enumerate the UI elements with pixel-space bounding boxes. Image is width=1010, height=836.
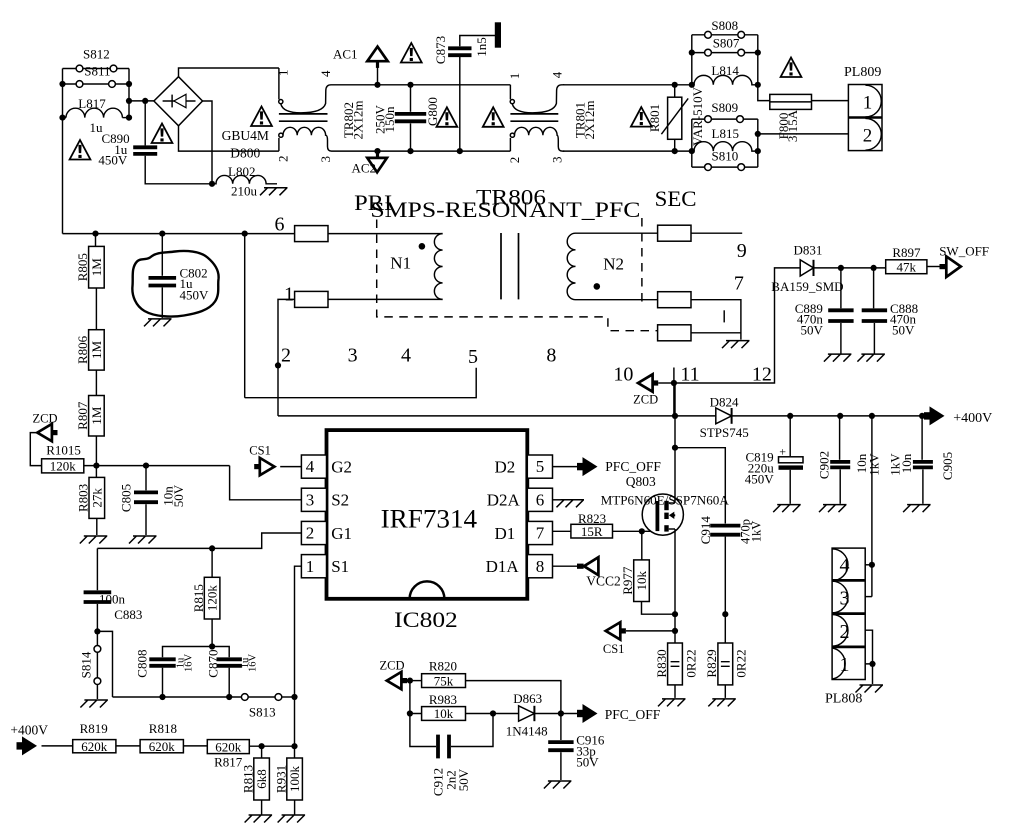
node CS1 (pin 4): [280, 466, 301, 468]
aux winding link box: [658, 332, 662, 334]
IC802 pin 7 (D1): [527, 521, 552, 544]
wire 7 (N2 bottom): [576, 299, 658, 301]
svg-text:2: 2: [306, 524, 315, 543]
svg-text:L802: L802: [228, 164, 255, 179]
wire pin2 G1 net: [97, 533, 301, 548]
svg-text:15R: 15R: [581, 524, 603, 539]
IC802 pin 5 (D2): [527, 455, 552, 478]
svg-text:AC1: AC1: [333, 47, 358, 62]
svg-text:N2: N2: [603, 255, 624, 274]
svg-text:3.15A: 3.15A: [785, 109, 800, 142]
svg-text:4: 4: [306, 457, 315, 476]
svg-text:MTP6N60E/SSP7N60A: MTP6N60E/SSP7N60A: [601, 493, 730, 508]
IC U IC802 IRF7314 outline: [327, 430, 528, 599]
svg-text:3: 3: [306, 490, 315, 509]
wire pin7 to R823: [553, 530, 571, 532]
TR806 dashed boundary PRI: [377, 220, 661, 331]
resistor R830 0R22: [668, 643, 683, 685]
ground (C802): [144, 319, 172, 327]
resistor R815 120k: [211, 548, 213, 577]
capacitor C800 250V 150n: [410, 85, 412, 112]
svg-text:BA159_SMD: BA159_SMD: [771, 279, 843, 294]
fuse box on wire 1: [295, 291, 328, 307]
svg-text:10k: 10k: [434, 706, 454, 721]
svg-text:D831: D831: [794, 243, 823, 258]
ground (L802): [260, 188, 288, 196]
svg-text:C883: C883: [114, 607, 142, 622]
svg-text:VCC2: VCC2: [586, 574, 621, 589]
svg-text:D824: D824: [710, 394, 739, 409]
wire L815 block right rail: [757, 119, 759, 167]
capacitor C805 10n 50V: [145, 466, 147, 491]
svg-text:150n: 150n: [382, 106, 397, 133]
svg-text:8: 8: [536, 557, 545, 576]
svg-text:R801: R801: [647, 104, 662, 132]
svg-text:CS1: CS1: [603, 642, 625, 656]
svg-text:2: 2: [863, 125, 873, 146]
wire R983 to D863: [466, 713, 519, 715]
svg-text:6: 6: [275, 214, 285, 236]
resistor R977 10k: [641, 531, 643, 560]
svg-text:+400V: +400V: [10, 723, 48, 738]
svg-text:450V: 450V: [98, 153, 128, 168]
wire rail to PL808 pins 4/3: [871, 416, 873, 597]
ground (C905): [903, 505, 931, 512]
capacitor C889 470n 50V: [840, 268, 842, 308]
wire S1 net vertical: [294, 697, 296, 746]
ground (R803): [80, 536, 108, 544]
wire mains bus (node 6): [63, 233, 295, 235]
svg-text:+: +: [779, 445, 786, 459]
svg-text:D863: D863: [513, 691, 542, 706]
svg-text:50V: 50V: [801, 322, 824, 337]
wire pin2/pin5 bottom link: [245, 368, 477, 398]
connector PL808: [832, 548, 865, 679]
svg-text:2X12m: 2X12m: [350, 101, 365, 140]
transformer TR801 2X12m: [509, 85, 511, 100]
TR806 dashed boundary SEC: [641, 218, 643, 305]
svg-text:50V: 50V: [171, 484, 186, 507]
ground (R829): [708, 699, 736, 707]
wire TR801 pin4 to L814 block: [563, 84, 694, 86]
warning triangle (bridge left): [152, 124, 173, 144]
svg-text:1M: 1M: [89, 406, 104, 425]
svg-text:C808: C808: [134, 650, 149, 678]
svg-text:L814: L814: [711, 63, 739, 78]
connector PL809: [848, 85, 882, 151]
svg-text:4: 4: [318, 70, 333, 77]
resistor R1015 120k: [42, 459, 84, 473]
svg-text:R806: R806: [75, 335, 90, 364]
wire pin 12 to D831: [674, 268, 800, 383]
ground (S814): [80, 700, 108, 708]
bridge rectifier D800 GBU4M: [154, 77, 203, 126]
svg-text:0R22: 0R22: [683, 649, 698, 677]
svg-text:R983: R983: [429, 692, 457, 707]
svg-text:ZCD: ZCD: [380, 658, 405, 672]
svg-text:D1: D1: [495, 524, 516, 543]
ground (R931): [278, 815, 306, 823]
svg-text:GBU4M: GBU4M: [222, 128, 269, 143]
svg-text:PRI: PRI: [354, 190, 392, 215]
svg-text:N1: N1: [390, 254, 411, 273]
capacitor C912 2n2 50V: [410, 714, 436, 747]
svg-text:PL809: PL809: [844, 65, 881, 80]
svg-text:2: 2: [281, 345, 291, 367]
node ZCD (bottom): [387, 672, 402, 689]
node CS1 (Q803 source): [626, 630, 675, 632]
diode D831 BA159_SMD: [800, 260, 813, 276]
winding N1: [434, 234, 442, 300]
wire ZCD node to drain: [673, 383, 675, 416]
svg-text:27k: 27k: [89, 488, 104, 508]
svg-text:3: 3: [318, 156, 333, 163]
svg-text:16V: 16V: [183, 654, 194, 673]
wire L815 block left rail: [691, 119, 693, 167]
wire PL808 pin2/pin1 link: [865, 630, 872, 664]
wire D863 to PFC_OFF: [534, 713, 578, 715]
pin 11 stub: [673, 368, 675, 384]
wire bridge bottom to TR802 pin2: [179, 126, 279, 151]
svg-text:1: 1: [507, 73, 522, 80]
warning triangle (AC1 right): [401, 43, 422, 63]
svg-text:+400V: +400V: [953, 411, 992, 426]
svg-text:6: 6: [536, 490, 545, 509]
svg-text:L815: L815: [712, 126, 739, 141]
svg-text:R807: R807: [75, 401, 90, 430]
wire R820 to D863 node: [466, 681, 561, 714]
node ZCD (pin 10): [638, 374, 653, 391]
wire bridge top to TR802 pin1: [179, 68, 279, 77]
svg-text:R829: R829: [704, 649, 719, 677]
winding N2: [567, 233, 575, 300]
svg-text:C870: C870: [205, 650, 220, 678]
capacitor C870 1u 16V: [217, 659, 242, 666]
resistor R819 620k: [73, 740, 116, 753]
svg-text:PFC_OFF: PFC_OFF: [605, 707, 661, 722]
capacitor C819 220u 450V (electrolytic): [789, 416, 791, 456]
ground (C889): [824, 354, 852, 362]
wire S-block to bridge: [129, 100, 154, 102]
switch S811: [63, 83, 130, 85]
diode D824 STPS745: [716, 408, 732, 424]
inductor L814: [694, 75, 758, 84]
svg-text:9: 9: [737, 240, 747, 262]
svg-text:75k: 75k: [434, 673, 454, 688]
svg-text:Q803: Q803: [626, 474, 656, 489]
ground (R830): [658, 699, 686, 707]
ground (C805): [129, 536, 157, 544]
svg-text:S812: S812: [83, 47, 110, 62]
warning triangle (input): [70, 140, 91, 160]
svg-text:4: 4: [840, 555, 850, 577]
svg-text:S2: S2: [331, 491, 349, 510]
svg-text:2: 2: [840, 621, 850, 643]
svg-text:3: 3: [348, 345, 358, 367]
svg-text:10n: 10n: [899, 453, 914, 473]
switch S812: [63, 68, 130, 70]
svg-text:11: 11: [680, 364, 699, 386]
svg-text:D2A: D2A: [487, 491, 521, 510]
svg-text:1: 1: [840, 654, 850, 676]
wire C883 node to bottom row: [97, 631, 112, 697]
wire L814 block right rail: [757, 35, 759, 85]
node R1015 row: [84, 465, 230, 467]
capacitor C808 1u 16V: [149, 659, 175, 666]
transformer TR802 2X12m: [278, 68, 280, 99]
svg-text:S808: S808: [711, 18, 738, 33]
ground (C916): [544, 781, 572, 789]
svg-text:R931: R931: [273, 765, 288, 793]
wire R819-R818: [116, 745, 140, 747]
IC802 pin 6 (D2A): [527, 488, 552, 511]
wire source to R830: [674, 614, 676, 643]
wire to fuse F800: [758, 85, 770, 101]
node PFC_OFF (bottom): [583, 704, 598, 723]
svg-text:100k: 100k: [287, 766, 302, 793]
ground (C819): [773, 505, 801, 512]
svg-text:S814: S814: [79, 651, 94, 678]
wire R818-R817: [183, 745, 207, 747]
svg-text:R830: R830: [654, 649, 669, 677]
wire 9 (N2 top): [576, 232, 658, 234]
capacitor C883 100n: [96, 548, 98, 590]
TR806 core lines: [501, 233, 519, 299]
svg-text:G800: G800: [425, 97, 440, 126]
resistor R817 620k: [207, 740, 249, 754]
resistor R806 1M: [95, 288, 97, 330]
resistor R983 10k: [422, 707, 466, 721]
svg-text:1: 1: [306, 557, 315, 576]
resistor R823 15R: [571, 524, 613, 538]
wire D831 to R897: [814, 267, 886, 269]
svg-text:1M: 1M: [89, 340, 104, 359]
IC802 pin 2 (G1): [301, 521, 326, 544]
svg-text:1n5: 1n5: [474, 37, 489, 57]
ground (C902): [819, 505, 847, 512]
svg-text:G1: G1: [331, 524, 352, 543]
capacitor C890: [144, 101, 146, 145]
svg-text:6k8: 6k8: [254, 769, 269, 789]
capacitor C905 1kV 10n: [921, 416, 923, 460]
svg-text:R823: R823: [578, 511, 606, 526]
svg-text:IRF7314: IRF7314: [381, 505, 478, 534]
svg-text:12: 12: [752, 364, 772, 386]
svg-text:G2: G2: [331, 457, 352, 476]
svg-text:10: 10: [613, 364, 633, 386]
svg-text:4: 4: [549, 71, 564, 78]
IC802 pin 8 (D1A): [527, 555, 552, 578]
svg-text:D2: D2: [495, 457, 516, 476]
svg-text:7: 7: [734, 273, 744, 295]
node ZCD (left): [30, 433, 41, 466]
switch S810: [692, 166, 758, 168]
svg-text:S813: S813: [249, 705, 276, 720]
wire L814 block left rail: [691, 35, 693, 85]
ground (PL808): [856, 685, 884, 693]
IC802 pin 4 (G2): [301, 455, 326, 478]
svg-text:S810: S810: [712, 149, 739, 164]
svg-text:50V: 50V: [576, 755, 599, 770]
switch S813: [241, 694, 248, 701]
svg-text:C805: C805: [119, 484, 134, 512]
ground (C888): [857, 354, 885, 362]
wire 1 (N1 bottom): [328, 298, 443, 300]
svg-text:R819: R819: [80, 721, 108, 736]
svg-text:120k: 120k: [50, 459, 77, 474]
svg-text:SW_OFF: SW_OFF: [939, 243, 989, 258]
svg-text:1N4148: 1N4148: [506, 723, 548, 738]
IC802 pin 1 (S1): [301, 555, 326, 578]
fuse box on wire 7: [658, 292, 691, 308]
switch S808: [692, 34, 758, 36]
svg-text:ZCD: ZCD: [33, 412, 58, 426]
svg-text:R803: R803: [76, 484, 91, 512]
resistor R897 47k: [886, 260, 927, 274]
svg-text:R805: R805: [75, 253, 90, 281]
svg-text:R820: R820: [429, 658, 457, 673]
resistor R805 1M: [95, 234, 97, 247]
wire R807 to R1015 node: [95, 436, 97, 466]
capacitor C873 1n5: [459, 57, 461, 151]
warning triangle (C800): [437, 107, 458, 127]
capacitor C902 10n 1kV: [839, 416, 841, 460]
svg-text:620k: 620k: [215, 739, 242, 754]
svg-text:R1015: R1015: [46, 443, 81, 458]
wire source vertical: [674, 529, 676, 614]
node AC2: [377, 151, 379, 157]
svg-text:1M: 1M: [89, 258, 104, 277]
svg-text:SMPS-RESONANT_PFC: SMPS-RESONANT_PFC: [370, 197, 640, 222]
wire TR801 pin3 to L815 block: [563, 150, 694, 152]
svg-text:S1: S1: [331, 557, 349, 576]
resistor R807 1M: [95, 370, 97, 395]
inductor L817: [63, 117, 67, 119]
svg-text:C905: C905: [940, 452, 955, 480]
svg-text:50V: 50V: [456, 768, 471, 791]
warning triangle (near GBU4M): [251, 107, 272, 127]
wire TR802 pin4 to TR801 pin1: [334, 84, 511, 86]
svg-text:C902: C902: [817, 451, 832, 479]
svg-text:16V: 16V: [248, 654, 259, 673]
svg-text:1kV: 1kV: [866, 453, 881, 476]
svg-text:R818: R818: [149, 721, 177, 736]
wire S-block right rail: [128, 69, 130, 118]
svg-text:5: 5: [468, 346, 478, 368]
svg-text:S807: S807: [713, 36, 740, 51]
diode D863 1N4148: [519, 706, 535, 721]
svg-text:C873: C873: [433, 36, 448, 64]
wire bottom row: [113, 696, 242, 698]
svg-text:D1A: D1A: [486, 557, 520, 576]
svg-text:2: 2: [507, 157, 522, 164]
wire gate R823 to Q803: [613, 530, 657, 532]
svg-text:120k: 120k: [205, 585, 220, 612]
svg-text:1: 1: [275, 69, 290, 76]
wire pin1 S1 net: [295, 566, 302, 697]
warning triangle (TR801 left): [483, 107, 504, 127]
svg-text:8: 8: [546, 345, 556, 367]
svg-text:C914: C914: [698, 516, 713, 545]
wire R817 to junctions: [249, 745, 294, 747]
svg-text:5: 5: [536, 457, 545, 476]
inductor L815: [694, 142, 758, 151]
capacitor C914 470p 1kV: [675, 448, 725, 524]
svg-text:1kV: 1kV: [749, 521, 763, 543]
svg-text:S811: S811: [84, 64, 110, 79]
svg-text:47k: 47k: [897, 259, 917, 274]
capacitor C802 1u 450V: [161, 234, 163, 276]
fuse box on wire 6: [295, 226, 328, 242]
svg-text:620k: 620k: [149, 739, 176, 754]
svg-text:620k: 620k: [81, 739, 108, 754]
ground (R813): [245, 815, 273, 823]
fuse box on wire 9: [658, 225, 691, 241]
resistor R818 620k: [140, 740, 183, 753]
resistor R829 0R22: [724, 614, 726, 643]
fuse F800 3.15A: [770, 94, 812, 109]
inductor L802: [212, 175, 277, 183]
wire pin3 S2 net: [230, 466, 302, 500]
wire boost node rail: [278, 415, 716, 417]
resistor R820 75k: [422, 674, 466, 688]
wire R815 to C808/C870: [163, 647, 230, 658]
node +400V (rail): [930, 406, 945, 425]
svg-text:L817: L817: [78, 96, 106, 111]
wire drain vertical: [674, 383, 676, 503]
wire PL808 pin3 stub: [865, 596, 872, 598]
node VCC2 (pin 8): [553, 565, 578, 567]
svg-text:R977: R977: [620, 566, 635, 595]
svg-text:S809: S809: [711, 100, 738, 115]
svg-text:R813: R813: [240, 765, 255, 793]
svg-text:PFC_OFF: PFC_OFF: [605, 459, 661, 474]
svg-text:4: 4: [401, 345, 411, 367]
IC802 pin 3 (S2): [301, 488, 326, 511]
svg-text:STPS745: STPS745: [700, 425, 749, 440]
wire ZCD to R983: [410, 681, 422, 714]
svg-text:CS1: CS1: [249, 443, 271, 457]
svg-text:450V: 450V: [180, 288, 210, 303]
svg-text:ZCD: ZCD: [633, 393, 658, 407]
resistor R813 6k8: [261, 746, 263, 758]
svg-text:3: 3: [840, 588, 850, 610]
svg-text:210u: 210u: [231, 184, 258, 199]
node PFC_OFF (pin 5): [553, 466, 578, 468]
svg-text:3: 3: [549, 157, 564, 164]
wire bus to TR806 left leg: [244, 234, 246, 398]
svg-text:R897: R897: [892, 245, 921, 260]
wire bridge right to L802 node: [203, 101, 213, 184]
varistor R801 VAR-510V: [674, 85, 676, 97]
svg-text:2: 2: [275, 155, 290, 162]
svg-text:0R22: 0R22: [734, 649, 749, 677]
chassis bar (C873): [495, 22, 501, 47]
stub (pin7 hidden): [723, 310, 725, 322]
svg-text:PL808: PL808: [825, 692, 862, 707]
resistor R803 27k: [95, 466, 97, 478]
svg-text:1: 1: [284, 284, 294, 306]
transistor Q803 MOSFET: [642, 494, 683, 535]
resistor R931 100k: [294, 746, 296, 758]
svg-text:R815: R815: [191, 584, 206, 612]
svg-text:IC802: IC802: [394, 607, 458, 632]
svg-text:7: 7: [536, 524, 545, 543]
highlight blob around C802: [132, 251, 218, 317]
switch S807: [692, 52, 758, 54]
svg-text:R817: R817: [214, 755, 243, 770]
svg-text:AC2: AC2: [352, 161, 377, 176]
